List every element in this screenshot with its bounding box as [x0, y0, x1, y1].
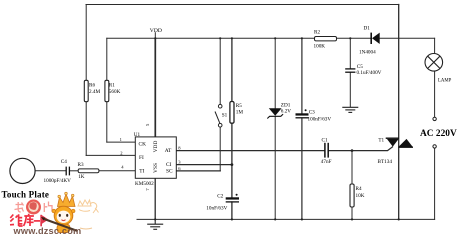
wire C5 column upper	[349, 38, 351, 68]
wire bottom rail	[137, 218, 435, 220]
capacitor C4	[44, 159, 72, 184]
wire triac column	[398, 5, 400, 220]
svg-text:100K: 100K	[314, 44, 326, 50]
svg-text:D1: D1	[364, 25, 371, 31]
svg-text:BT134: BT134	[378, 159, 393, 165]
svg-text:560K: 560K	[109, 89, 121, 95]
touch plate electrode	[2, 158, 50, 199]
wire SC pin 6	[176, 170, 220, 172]
svg-text:C5: C5	[357, 64, 363, 70]
svg-text:R2: R2	[314, 29, 320, 35]
svg-text:VDD: VDD	[150, 28, 162, 34]
wire ZD1 column lower	[274, 116, 276, 219]
watermark side decoration	[78, 200, 99, 229]
svg-text:1K: 1K	[78, 174, 85, 180]
resistor R4	[350, 184, 365, 207]
watermark mascot head	[52, 206, 75, 225]
capacitor C2	[206, 193, 239, 211]
svg-text:AT: AT	[165, 148, 172, 154]
svg-text:2.4M: 2.4M	[89, 89, 100, 95]
watermark weiku text	[10, 214, 40, 226]
svg-text:R1: R1	[109, 83, 115, 89]
zener diode ZD1	[267, 103, 291, 119]
svg-text:CI: CI	[166, 162, 172, 168]
svg-text:10nF/63V: 10nF/63V	[206, 206, 227, 212]
watermark pen	[41, 217, 78, 231]
svg-text:100nF/63V: 100nF/63V	[308, 117, 332, 123]
node AC terminal bottom	[433, 145, 436, 148]
watermark mascot body	[57, 224, 70, 232]
svg-text:AC 220V: AC 220V	[420, 129, 457, 139]
svg-text:KM5002: KM5002	[135, 181, 154, 187]
svg-text:0.1uF/400V: 0.1uF/400V	[357, 70, 382, 76]
wire VSS column	[154, 178, 156, 219]
watermark flag	[40, 215, 48, 227]
svg-text:10K: 10K	[356, 193, 365, 199]
wire inner left column lower	[106, 102, 108, 143]
watermark red badge	[26, 200, 41, 215]
node junction CI-R5	[231, 163, 234, 166]
svg-text:VDD: VDD	[153, 141, 159, 153]
node junction bottom rail taps	[154, 218, 400, 220]
svg-text:1000pF/4KV: 1000pF/4KV	[44, 178, 72, 184]
svg-text:C3: C3	[309, 110, 315, 116]
wire AT gate right of C1	[328, 147, 392, 151]
diode D1	[359, 25, 380, 55]
wire right column to lamp	[434, 38, 436, 53]
svg-text:TI: TI	[139, 169, 144, 175]
wire AC terminal to bottom rail	[434, 148, 436, 219]
svg-text:C2: C2	[217, 193, 223, 199]
svg-text:U1: U1	[134, 132, 141, 138]
resistor R6	[84, 80, 100, 101]
wire VDD column to IC	[154, 38, 156, 137]
wire VDD rail right segment	[380, 37, 435, 39]
capacitor C5	[345, 64, 381, 76]
svg-text:SC: SC	[166, 168, 173, 174]
ground under VSS	[147, 219, 163, 229]
svg-text:VSS: VSS	[153, 163, 159, 173]
capacitor C3	[296, 109, 332, 122]
resistor R1	[105, 80, 121, 101]
wire VDD rail middle segment	[337, 37, 372, 39]
switch S1	[215, 104, 228, 127]
svg-text:www.dzsc.com: www.dzsc.com	[13, 226, 82, 235]
wire touch plate to C4	[35, 170, 66, 172]
wire R5 column from rail	[231, 38, 233, 101]
node junction R4-gate	[351, 149, 354, 152]
svg-text:R3: R3	[78, 162, 84, 168]
wire C3 column upper	[301, 38, 303, 113]
wire to pin 2 FI	[86, 154, 135, 156]
wire R4 column upper	[351, 151, 353, 184]
svg-text:Touch Plate: Touch Plate	[2, 190, 50, 200]
svg-text:T1: T1	[378, 138, 384, 144]
wire VDD tick	[154, 33, 156, 39]
wire C4 to R3	[70, 170, 79, 172]
wire C3 column lower	[301, 118, 303, 219]
wire inner left column upper	[106, 38, 108, 80]
wire VDD rail left segment	[107, 37, 315, 39]
wire C5 to ground	[349, 72, 351, 106]
wire C2 to bottom rail	[231, 202, 233, 219]
wire to pin 1 CK	[107, 141, 136, 143]
svg-text:R6: R6	[89, 83, 95, 89]
resistor R2	[314, 29, 337, 49]
resistor R5	[230, 102, 243, 124]
op-amp U1 IC box KM5002	[134, 132, 177, 187]
lamp	[425, 54, 452, 84]
svg-text:C1: C1	[322, 138, 328, 144]
wire lamp to AC terminal	[434, 71, 436, 117]
wire outer left upper	[85, 5, 87, 81]
wire S1 column from rail	[219, 38, 221, 104]
svg-text:1N4004: 1N4004	[359, 49, 376, 55]
wire CI pin 3	[176, 164, 232, 166]
wire AT pin 8 left of C1	[176, 150, 325, 152]
svg-text:LAMP: LAMP	[438, 78, 452, 83]
node junction rail taps	[154, 37, 351, 39]
svg-text:C4: C4	[61, 159, 67, 165]
wire R4 column lower	[351, 207, 353, 219]
watermark faint char	[15, 202, 24, 212]
wire outer left lower	[85, 102, 87, 156]
capacitor C1	[321, 138, 332, 165]
wire R5 to C2 column	[231, 123, 233, 197]
watermark faint char 2	[44, 202, 52, 213]
wire S1 column to SC	[219, 127, 221, 171]
watermark crown	[58, 192, 76, 206]
svg-text:1M: 1M	[236, 109, 244, 115]
svg-text:FI: FI	[139, 155, 144, 161]
wire R3 to pin 4 TI	[99, 170, 135, 172]
svg-text:CK: CK	[139, 142, 147, 148]
svg-text:47nF: 47nF	[321, 159, 332, 165]
svg-text:R5: R5	[236, 103, 242, 109]
resistor R3	[78, 162, 99, 180]
ground under C5	[342, 107, 358, 112]
wire ZD1 column upper	[274, 38, 276, 108]
transistor T1 triac BT134	[378, 138, 414, 165]
svg-text:R4: R4	[356, 186, 362, 192]
wire outer top	[86, 4, 399, 6]
svg-text:S1: S1	[222, 113, 228, 119]
node AC terminal top	[433, 117, 436, 120]
svg-text:6.2V: 6.2V	[281, 109, 291, 115]
